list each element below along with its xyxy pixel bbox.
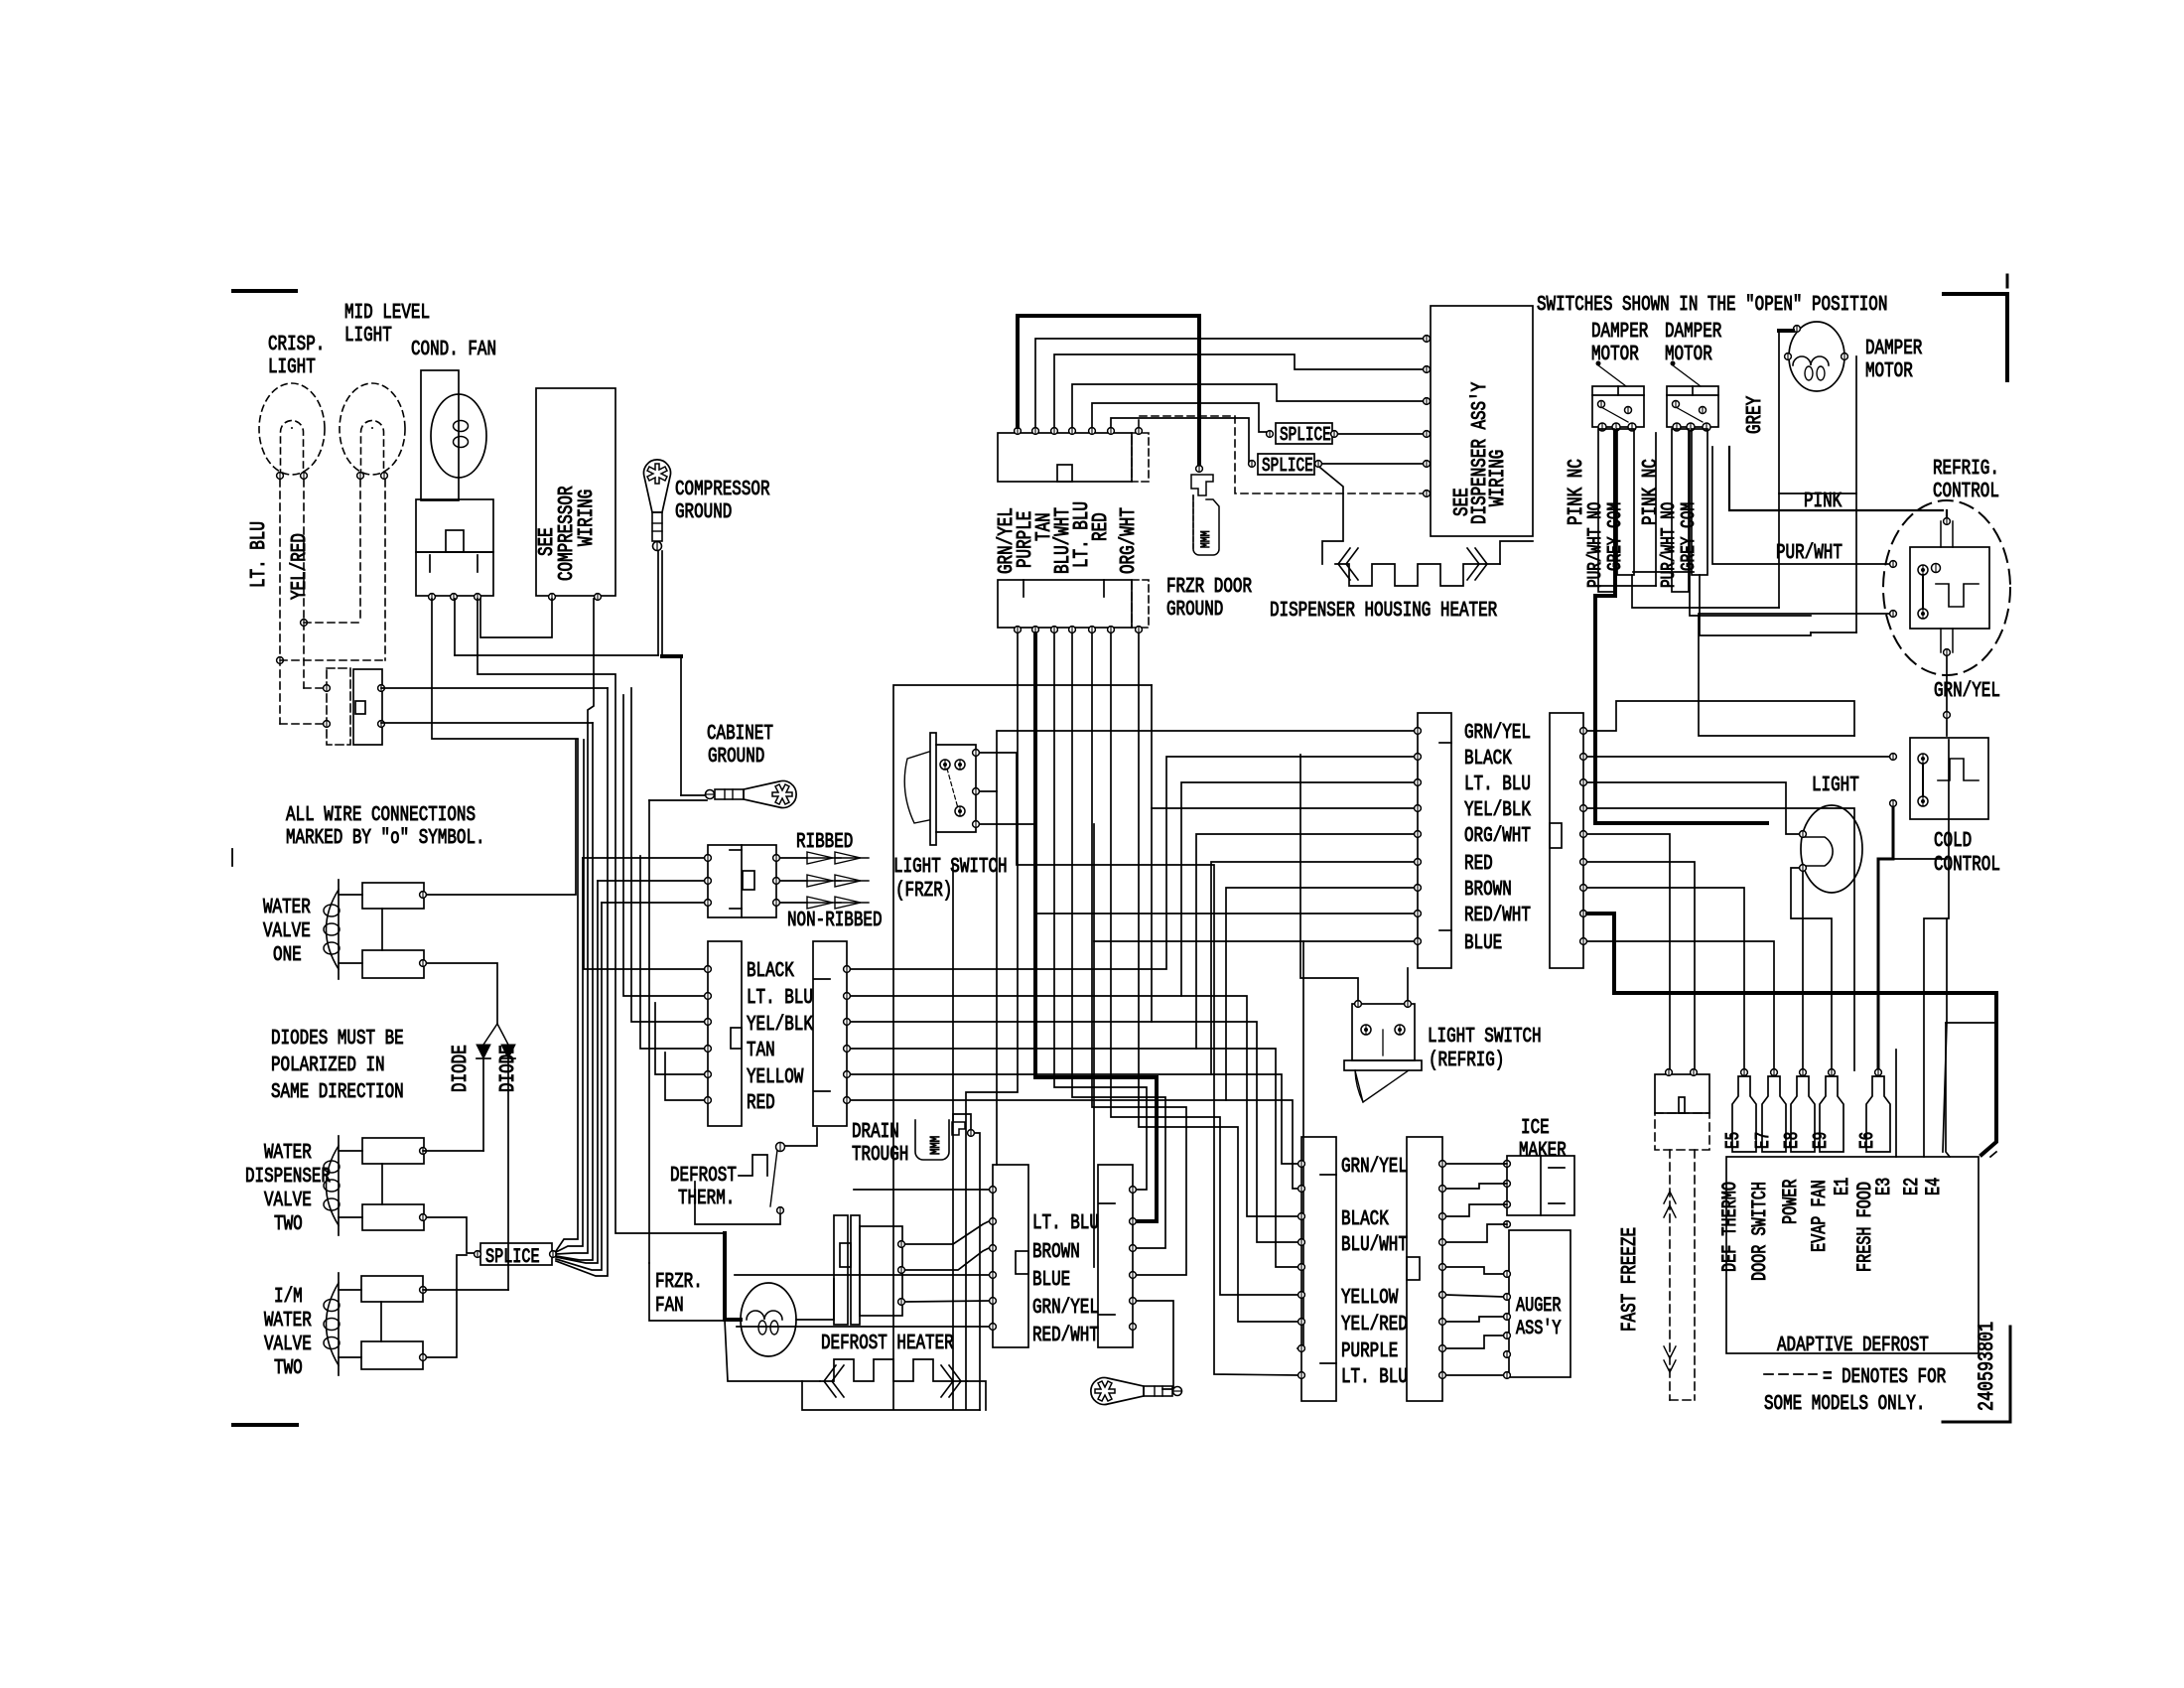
wire P1 thick to frzr door ground [1018, 316, 1199, 465]
tick mark left edge [231, 849, 233, 866]
label BLACK [1464, 748, 1512, 771]
svg-text:ICE: ICE [1521, 1117, 1550, 1140]
svg-text:CRISP.: CRISP. [268, 334, 325, 356]
wire grn/yel down to board [1924, 740, 1949, 1157]
svg-text:GREY COM: GREY COM [1678, 502, 1700, 571]
water valve one coil [324, 880, 340, 979]
box SEE COMPRESSOR WIRING [536, 388, 615, 596]
label I/M WATER VALVE TWO [264, 1286, 312, 1380]
label DIODE (right) [497, 1045, 520, 1092]
svg-text:MID LEVEL: MID LEVEL [344, 302, 430, 325]
connector E left shell [708, 941, 742, 1126]
label RED/WHT [1032, 1325, 1099, 1347]
I/M water valve body [339, 1276, 423, 1369]
splice terminals [475, 1251, 557, 1258]
svg-text:MARKED BY "o" SYMBOL.: MARKED BY "o" SYMBOL. [286, 827, 485, 850]
drain trough bucket [915, 1120, 949, 1160]
svg-text:LIGHT SWITCH: LIGHT SWITCH [893, 856, 1008, 879]
label AUGER ASS'Y [1516, 1295, 1562, 1340]
splice box A [1276, 423, 1332, 446]
label YEL/BLK [1464, 799, 1531, 822]
wire lower-left to G p6 [737, 1326, 989, 1328]
wire dashed crisp-to-mid link [304, 480, 360, 623]
svg-text:YEL/RED: YEL/RED [289, 533, 312, 600]
svg-text:DEFROST HEATER: DEFROST HEATER [821, 1333, 954, 1355]
wire frzr fan t3 to G p5 [905, 1301, 989, 1302]
lamp CRISP. LIGHT [259, 383, 325, 479]
door switch terminals [378, 685, 385, 728]
wire P2b thick down to connector H [1035, 633, 1157, 1221]
splice box B [1258, 454, 1314, 477]
spade terminal E9 [1810, 1069, 1843, 1152]
wire-label box GREY COM (switch1) [1604, 429, 1634, 575]
label COMPRESSOR GROUND [675, 479, 770, 524]
svg-text:LIGHT: LIGHT [1812, 774, 1859, 797]
svg-text:TAN: TAN [747, 1040, 775, 1062]
svg-text:ORG/WHT: ORG/WHT [1118, 507, 1141, 574]
damper switch 1 [1592, 361, 1644, 432]
connector A terminals [1415, 728, 1422, 945]
frzr harness lower terminals [1015, 627, 1143, 633]
wire frzr fan t2 to G p3 [905, 1248, 989, 1270]
refrig control stem top [1941, 521, 1953, 547]
wire light-sw t2 branch down [996, 791, 998, 1165]
I/M water valve coil [324, 1273, 340, 1375]
connector C terminals [1298, 1161, 1305, 1379]
svg-text:E7: E7 [1752, 1132, 1774, 1149]
label RED [747, 1092, 775, 1115]
label PUR/WHT [1776, 542, 1843, 565]
damper motor coil [1789, 322, 1844, 391]
label TAN (vertical) [1033, 512, 1056, 541]
wire P7 dashed to dispenser assy [1139, 416, 1427, 493]
wire P2 to dispenser assy [1035, 339, 1427, 427]
light switch (refrig) contacts [1361, 1025, 1405, 1055]
svg-text:LT. BLU: LT. BLU [747, 987, 813, 1010]
svg-text:LT. BLU: LT. BLU [1464, 774, 1531, 796]
board pin label E4 [1923, 1178, 1946, 1196]
wire E3 stub [1895, 1050, 1897, 1157]
light switch (frzr) plate [930, 733, 936, 845]
label LT. BLU (vertical) [1071, 501, 1094, 568]
wire refrig switch t2 up [1407, 968, 1409, 1000]
label CRISP. LIGHT [268, 334, 325, 379]
frzr harness upper terminals [1015, 428, 1143, 435]
wire splice A to dispenser assy [1338, 433, 1427, 435]
connector H terminals [1130, 1187, 1137, 1331]
junction node on YEL/RED [301, 620, 308, 627]
refrig control housing (dashed circle) [1883, 500, 2010, 675]
ribbed wire symbol row1 [780, 852, 869, 864]
wire P4b down to connector H [1072, 633, 1165, 1248]
svg-text:AUGER: AUGER [1516, 1295, 1562, 1318]
wire splice fan 6 [556, 903, 602, 1270]
wire sw2 purwht down [1690, 431, 1811, 616]
connector B terminals [1580, 728, 1587, 945]
board pin label E2 [1901, 1178, 1924, 1196]
spade terminal E7 [1752, 1069, 1786, 1152]
wire I/M valve to splice [427, 1255, 467, 1357]
wire F p3 to A p4 [1152, 808, 1418, 1022]
svg-text:GRN/YEL: GRN/YEL [1032, 1297, 1099, 1320]
wire B p1 up-right [1587, 701, 1854, 736]
svg-text:WATER: WATER [264, 1310, 312, 1333]
wire defrost therm upper [784, 1128, 817, 1146]
label YEL/RED [289, 533, 312, 600]
svg-text:CABINET: CABINET [707, 723, 773, 746]
tick mark top-left border [233, 289, 296, 293]
svg-text:SPLICE: SPLICE [485, 1246, 540, 1269]
label DIODE (left) [450, 1045, 473, 1092]
water dispenser valve coil [324, 1136, 340, 1235]
board pin label DEF THERMO [1719, 1182, 1742, 1272]
cold control terminals [1890, 754, 1897, 807]
svg-text:MOTOR: MOTOR [1865, 360, 1913, 383]
label RED [1464, 853, 1493, 876]
wire F p4 to A p5 [1196, 834, 1418, 1049]
svg-text:VALVE: VALVE [264, 1334, 312, 1356]
wire P3 to dispenser assy [1054, 354, 1427, 427]
svg-text:BLUE: BLUE [1032, 1269, 1070, 1292]
note SOME MODELS ONLY. [1764, 1393, 1925, 1416]
label FAST FREEZE (vertical) [1619, 1227, 1642, 1332]
wire B p3 to light upper [1587, 782, 1799, 834]
wire P1b down [966, 633, 1018, 1409]
ribbed wire symbol row3 [780, 897, 869, 909]
wire E p6 left [665, 1053, 704, 1100]
svg-text:ORG/WHT: ORG/WHT [1464, 825, 1531, 848]
svg-text:RED: RED [1090, 512, 1113, 541]
wire cond fan t3 to frzr fan [478, 599, 725, 1233]
svg-text:GRN/YEL: GRN/YEL [1464, 722, 1531, 745]
connector H shell [1098, 1165, 1133, 1347]
refrig light terminals [1800, 831, 1807, 872]
door switch (dashed side) [324, 668, 350, 745]
board pin label DOOR SWITCH [1749, 1182, 1772, 1281]
adaptive defrost board [1726, 1157, 1979, 1353]
splice box (left) [480, 1243, 552, 1269]
label LT. BLU [747, 987, 813, 1010]
wire P6 to splice B [1111, 418, 1252, 464]
frzr fan connector terminals [898, 1241, 905, 1306]
wire defrost therm lower [695, 1182, 780, 1224]
label YEL/BLK [747, 1014, 813, 1037]
water dispenser valve body [339, 1138, 424, 1230]
label PINK NC (switch1) [1566, 459, 1588, 525]
wire E p4 left [640, 856, 704, 1049]
wire heater area to G p4 [735, 1274, 989, 1276]
light switch (refrig) base [1344, 1060, 1422, 1070]
light switch (refrig) body [1352, 1004, 1415, 1060]
svg-text:BROWN: BROWN [1032, 1241, 1080, 1264]
svg-text:EVAP FAN: EVAP FAN [1809, 1180, 1832, 1252]
spade terminal E5 [1722, 1069, 1756, 1152]
ice maker terminals [1504, 1161, 1511, 1228]
wire P7b down to connector C [1139, 633, 1297, 1322]
connector D terminals [1439, 1161, 1446, 1379]
lamp MID LEVEL LIGHT [340, 383, 405, 479]
splice B terminals [1249, 461, 1322, 468]
door switch body [353, 669, 382, 745]
frzr fan motor [741, 1283, 796, 1356]
note ALL WIRE CONNECTIONS [286, 804, 485, 850]
wire LT. BLU (dashed) from crisp light [279, 480, 281, 724]
damper switch 2 [1667, 361, 1718, 432]
wire splice fan 1 [556, 740, 578, 1251]
wire splice B to dispenser assy [1322, 463, 1427, 465]
dispenser housing heater element [1335, 564, 1500, 586]
connector E terminals [705, 966, 712, 1104]
board pin label POWER [1780, 1180, 1803, 1225]
wire door switch lower to bundle [381, 722, 593, 724]
label LT. BLU [1341, 1366, 1408, 1389]
svg-text:LT. BLU: LT. BLU [248, 521, 271, 588]
wire sw1 thick down-left [1595, 431, 1767, 823]
wire dashed to door switch [280, 688, 327, 724]
corner mark bottom-right [1943, 1327, 2010, 1422]
label ORG/WHT [1464, 825, 1531, 848]
wire PUR/WHT [1712, 447, 1889, 564]
label DEFROST HEATER [821, 1333, 954, 1355]
svg-text:PUR/WHT NO: PUR/WHT NO [1584, 502, 1606, 588]
label BLUE [1464, 932, 1502, 955]
svg-text:RED: RED [747, 1092, 775, 1115]
wire feed to C p4 [851, 1022, 1297, 1242]
spade terminal E8 [1781, 1069, 1815, 1152]
wire door switch upper to bundle [381, 687, 608, 689]
svg-text:E3: E3 [1873, 1178, 1896, 1196]
wire F p5 to A p6 [1211, 862, 1418, 1074]
label SEE DISPENSER ASSY WIRING [1451, 381, 1510, 524]
defrost thermostat contacts [770, 1143, 783, 1214]
svg-text:VALVE: VALVE [264, 1190, 312, 1212]
cond fan housing [421, 370, 459, 500]
wire dispenser valve to splice [427, 1217, 478, 1253]
wire ribbed plug pin2 feed [598, 880, 708, 882]
dispenser housing heater chevrons [1338, 548, 1487, 580]
wire splice fan 3 [556, 599, 594, 1254]
defrost heater loop [802, 1381, 986, 1410]
wire compressor ground to cond fan [455, 551, 658, 655]
wire B p4 to board E1 [1587, 808, 1854, 1070]
svg-text:ONE: ONE [273, 944, 302, 967]
light switch (refrig) flag [1355, 1070, 1409, 1102]
svg-text:E2: E2 [1901, 1178, 1924, 1196]
svg-text:GROUND: GROUND [675, 501, 732, 524]
wire frzr fan t1 to G p2 [905, 1221, 989, 1244]
diode pair apex [483, 1024, 508, 1045]
wire F p6 to A p7 [1226, 888, 1418, 1100]
board pin label EVAP FAN [1809, 1180, 1832, 1252]
connector G terminals [990, 1187, 997, 1331]
label SEE COMPRESSOR WIRING [536, 486, 599, 581]
svg-text:DEFROST: DEFROST [670, 1165, 737, 1188]
cond fan relay block [416, 499, 493, 596]
wire-label box PUR/WHT NO (switch1) [1584, 429, 1614, 592]
wire grey com sw2 to damper [1700, 575, 1811, 635]
damper motor terminals [1785, 326, 1848, 360]
wire D p7 to auger [1446, 1317, 1503, 1322]
water valve one terminals [420, 892, 427, 967]
svg-text:DAMPER: DAMPER [1865, 338, 1923, 360]
cond fan motor [431, 394, 486, 478]
svg-text:PUR/WHT: PUR/WHT [1776, 542, 1843, 565]
label GRN/YEL [1934, 680, 2000, 703]
svg-text:ASS'Y: ASS'Y [1516, 1318, 1562, 1340]
connector D shell [1407, 1137, 1442, 1401]
wire splice fan 4 [556, 723, 593, 1260]
wire refrig switch t1 up [1300, 755, 1358, 1000]
svg-text:E5: E5 [1722, 1132, 1744, 1149]
part number 240593801 [1975, 1322, 1999, 1411]
wire B p7 to E5 [1587, 888, 1744, 1070]
wire PINK [1729, 447, 1947, 517]
wire diode D1 to dispenser valve [423, 1150, 483, 1152]
defrost heater chevrons [824, 1365, 961, 1397]
refrig light lamp [1801, 805, 1862, 893]
wire feed to C p3 [851, 996, 1297, 1216]
svg-text:BLUE: BLUE [1464, 932, 1502, 955]
svg-text:POLARIZED IN: POLARIZED IN [271, 1055, 385, 1077]
light switch (frzr) flag [904, 752, 929, 823]
svg-text:WIRING: WIRING [576, 490, 599, 546]
svg-text:GREY: GREY [1744, 396, 1767, 434]
svg-text:ADAPTIVE DEFROST: ADAPTIVE DEFROST [1777, 1335, 1929, 1357]
svg-text:MMM: MMM [1198, 530, 1213, 548]
fast freeze chevrons [1664, 1192, 1676, 1372]
wire E4 stub [1946, 1023, 1996, 1157]
light switch (frzr) body [936, 745, 976, 832]
svg-text:COND. FAN: COND. FAN [411, 339, 496, 361]
compressor box terminals [549, 594, 602, 601]
wire frzr switch t2 [980, 731, 1418, 791]
wire ribbed plug pin1 feed [583, 857, 708, 859]
wire F p1 to A p2 [851, 757, 1418, 969]
splice A terminals [1267, 431, 1338, 438]
diode D2 [501, 1045, 515, 1290]
svg-text:SPLICE: SPLICE [1262, 455, 1313, 477]
wire-label box GREY COM (switch2) [1678, 429, 1707, 575]
svg-text:CONTROL: CONTROL [1934, 854, 2000, 877]
wire B p8 thick [1587, 914, 1996, 1155]
svg-text:TWO: TWO [274, 1357, 303, 1380]
svg-text:PUR/WHT NO: PUR/WHT NO [1658, 502, 1680, 588]
label COND. FAN [411, 339, 496, 361]
refrig control terminals [1890, 518, 1951, 656]
defrost thermostat symbol [739, 1155, 767, 1176]
wire right bundle to board corner [1990, 1152, 1996, 1157]
cold control cam profile [1938, 759, 1979, 780]
wire D p5 to auger [1446, 1267, 1503, 1274]
svg-text:LIGHT: LIGHT [344, 325, 392, 348]
ribbed wire symbol row2 [780, 875, 869, 887]
defrost heater element [820, 1359, 967, 1381]
label RED/WHT [1464, 905, 1531, 927]
svg-text:NON-RIBBED: NON-RIBBED [787, 910, 883, 932]
label BROWN [1464, 879, 1512, 902]
svg-text:E4: E4 [1923, 1178, 1946, 1196]
fast freeze terminals [1666, 1069, 1698, 1076]
svg-text:DISPENSER: DISPENSER [245, 1166, 331, 1189]
frzr fan housing wire [725, 1233, 834, 1320]
wire cold control t2 thick [1878, 807, 1947, 1070]
wire B p5 to fast freeze [1587, 834, 1670, 1070]
junction node on LT. BLU [277, 657, 284, 664]
svg-text:BLACK: BLACK [1341, 1208, 1389, 1231]
wire center-left long run [893, 685, 1152, 1409]
note DIODES MUST BE [271, 1028, 404, 1104]
svg-text:COLD: COLD [1934, 830, 1972, 853]
wire D p6 to auger [1446, 1295, 1503, 1297]
auger terminals [1504, 1271, 1511, 1379]
wire light lower to E8-E9 [1791, 868, 1832, 1070]
label BROWN [1032, 1241, 1080, 1264]
label GRN/YEL [1341, 1156, 1408, 1179]
connector G shell [993, 1165, 1028, 1347]
svg-text:BLACK: BLACK [1464, 748, 1512, 771]
wire cabinet ground lead to frzr fan motor [649, 1263, 741, 1321]
wire D p3 to ice maker [1446, 1204, 1507, 1216]
svg-text:SAME DIRECTION: SAME DIRECTION [271, 1081, 404, 1104]
refrig control body [1910, 547, 1989, 629]
wire feed to C p5 [851, 1049, 1297, 1267]
wire damper right down [1811, 356, 1856, 633]
wire E p5 left [655, 1003, 704, 1074]
wire feed to C p2 [851, 1100, 1297, 1189]
svg-text:DISPENSER HOUSING HEATER: DISPENSER HOUSING HEATER [1270, 600, 1497, 623]
refrig control contacts [1918, 564, 1941, 620]
connector B shell [1550, 713, 1583, 968]
wire frzr fan housing bottom [725, 1320, 802, 1381]
svg-text:POWER: POWER [1780, 1180, 1803, 1225]
note dashed sample [1764, 1373, 1817, 1375]
connector A shell [1418, 713, 1451, 968]
frzr fan connector [834, 1215, 902, 1325]
label BLU/WHT (vertical) [1052, 507, 1075, 574]
svg-text:DIODES MUST BE: DIODES MUST BE [271, 1028, 404, 1051]
evap harness ground lug [1091, 1378, 1182, 1405]
cold control contacts [1918, 754, 1928, 806]
label GRN/YEL (vertical) [996, 507, 1019, 574]
note DENOTES FOR [1823, 1366, 1947, 1389]
svg-text:DIODE: DIODE [497, 1045, 520, 1092]
svg-text:RED/WHT: RED/WHT [1032, 1325, 1099, 1347]
wire E p3 left [631, 688, 704, 1022]
label ADAPTIVE DEFROST [1777, 1335, 1929, 1357]
svg-text:E6: E6 [1856, 1132, 1878, 1149]
label YELLOW [1341, 1287, 1399, 1310]
label RIBBED [796, 831, 853, 854]
connector C shell [1301, 1137, 1336, 1401]
label DAMPER MOTOR (switch2) [1665, 321, 1722, 366]
frzr harness connector lower [998, 580, 1149, 628]
wire frzr switch t3 [980, 824, 1418, 914]
wire cond fan t1 to splice bundle [432, 599, 578, 739]
label COLD CONTROL [1934, 830, 2000, 877]
svg-text:FRZR DOOR: FRZR DOOR [1166, 576, 1252, 599]
frzr harness connector upper [998, 433, 1149, 482]
label YELLOW [747, 1066, 804, 1089]
label CABINET GROUND [707, 723, 773, 769]
board pin label E3 [1873, 1178, 1896, 1196]
svg-text:(FRZR): (FRZR) [895, 880, 952, 903]
diode D1 [477, 1045, 490, 1151]
label DAMPER MOTOR (coil) [1865, 338, 1923, 383]
svg-text:GRN/YEL: GRN/YEL [1934, 680, 2000, 703]
drain trough clip [952, 1122, 974, 1136]
label DISPENSER HOUSING HEATER [1270, 600, 1497, 623]
label TAN [747, 1040, 775, 1062]
